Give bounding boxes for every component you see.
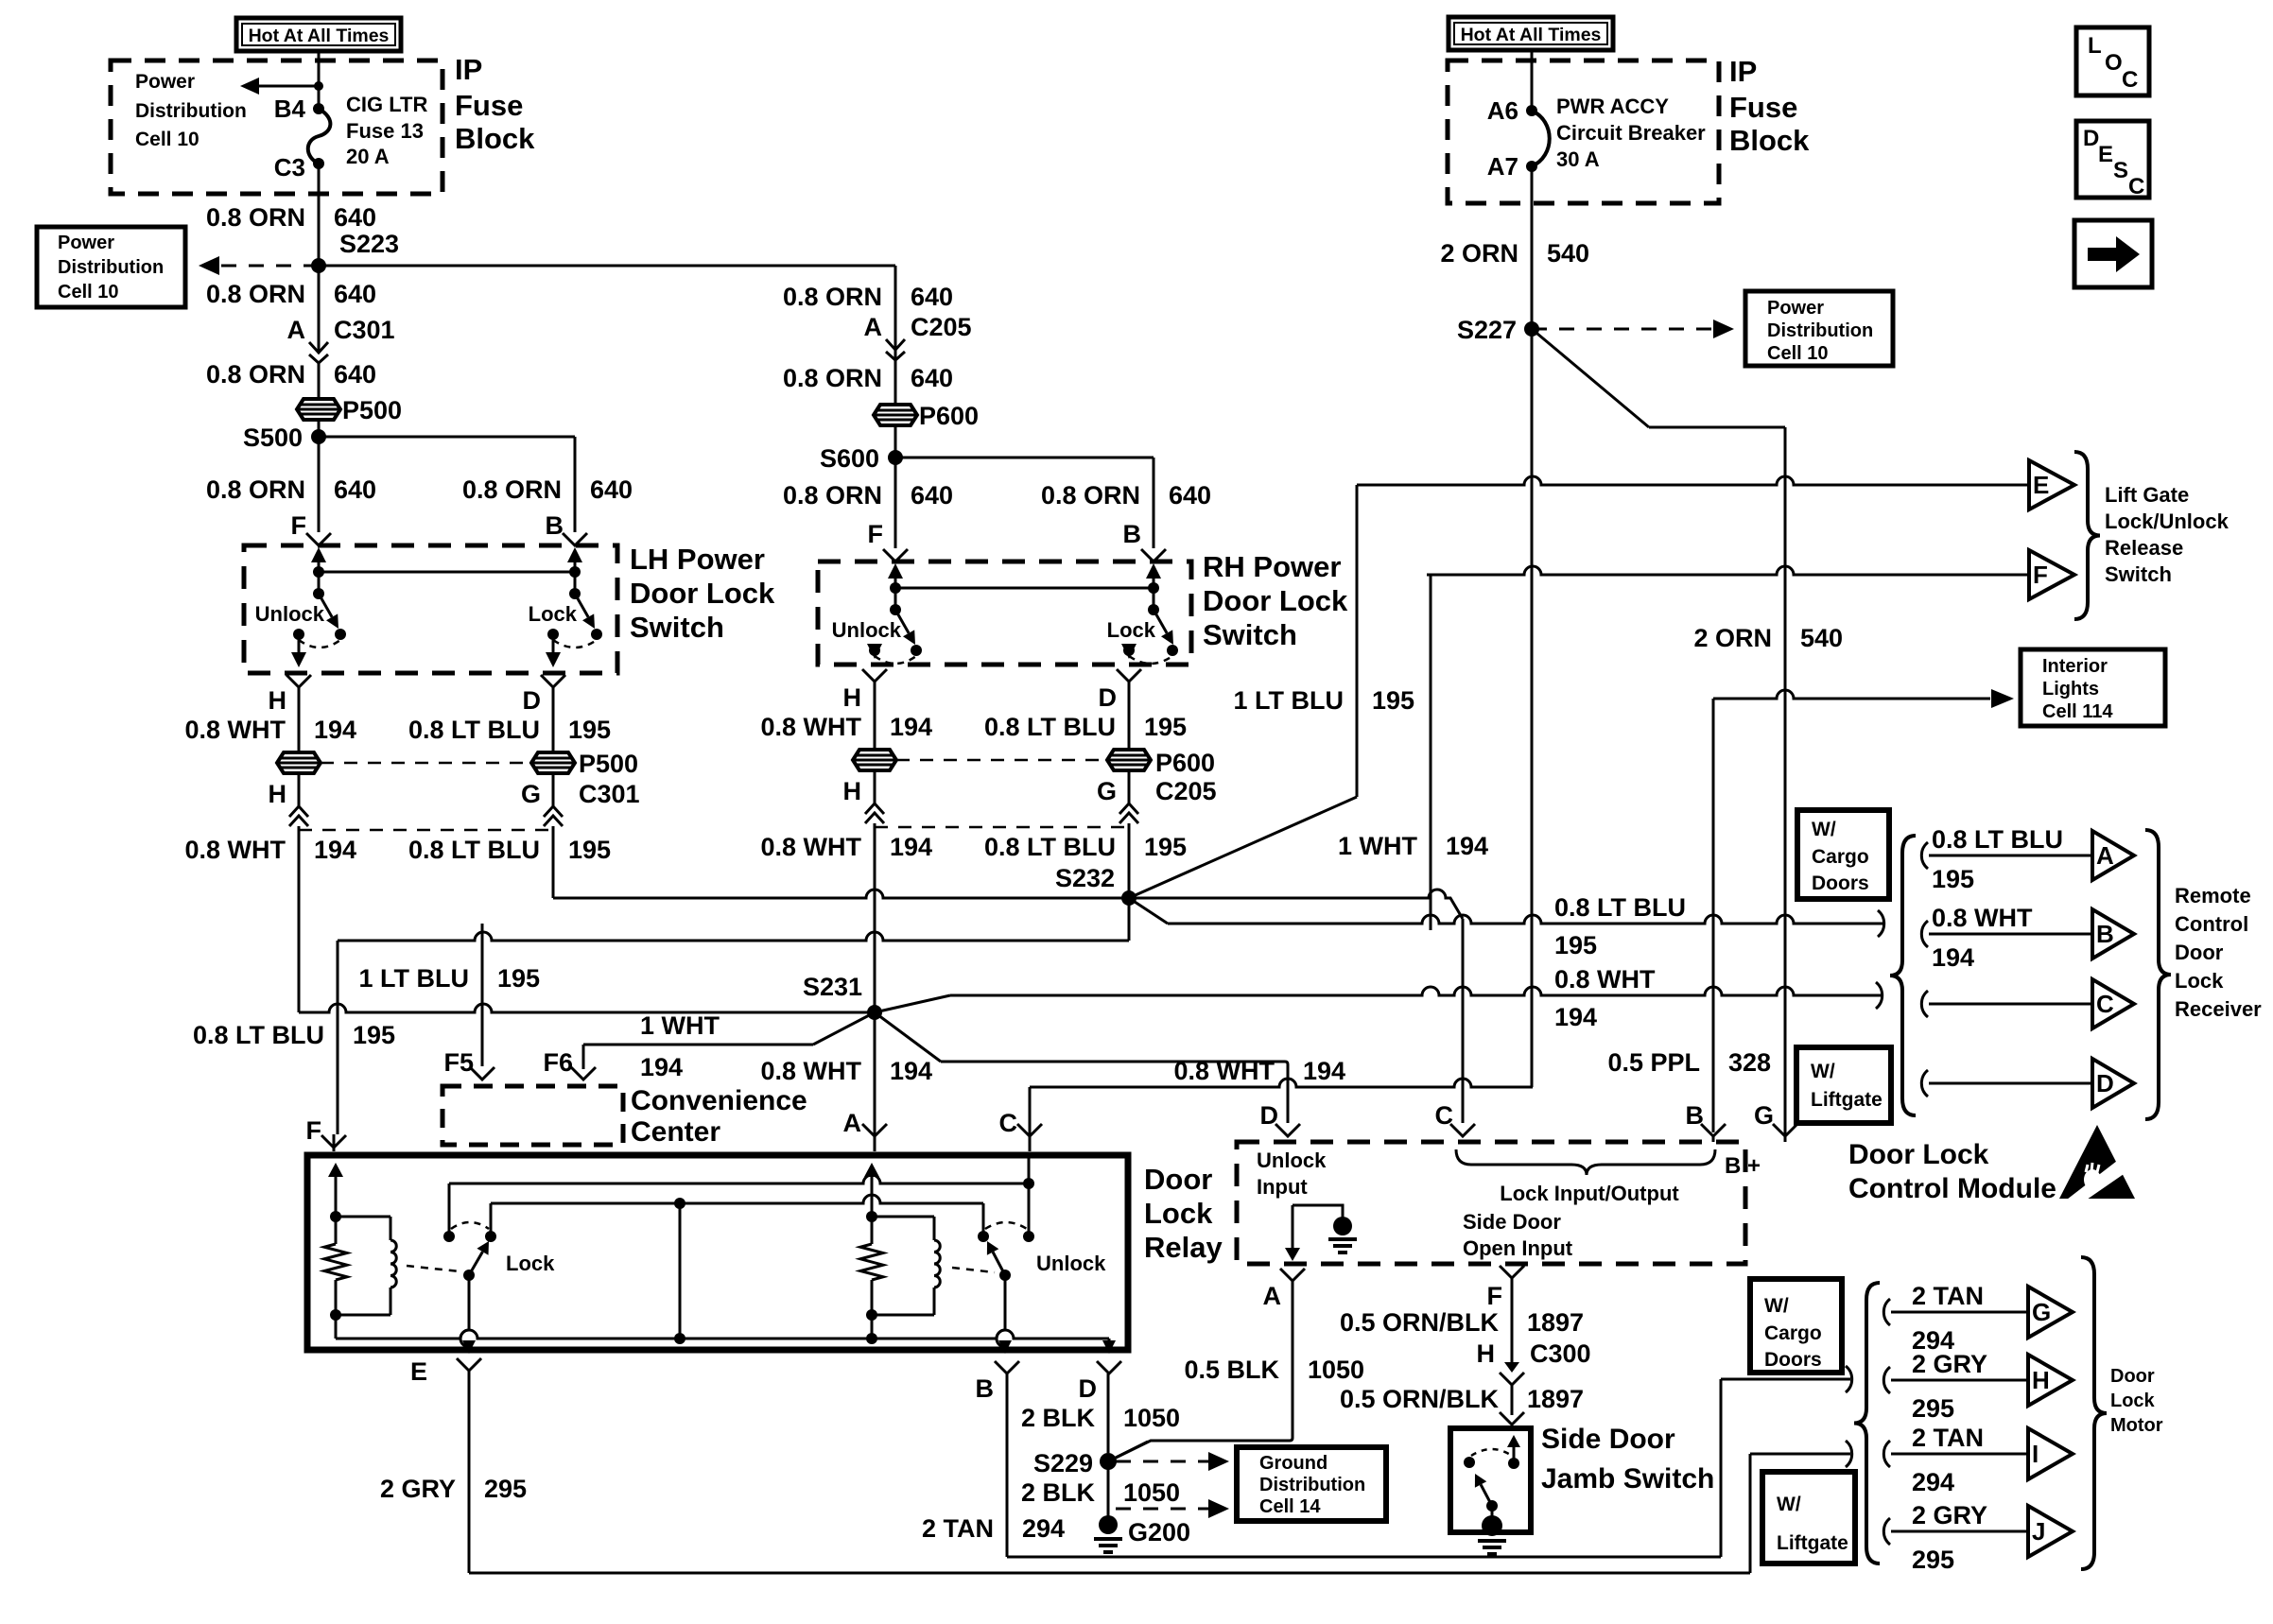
- Power Distribution Cell 10 box (left): [37, 227, 185, 307]
- svg-text:P500: P500: [579, 750, 638, 778]
- svg-text:Cell 14: Cell 14: [1259, 1496, 1321, 1517]
- svg-text:640: 640: [911, 283, 953, 311]
- wire S500 to LH F pin: [318, 437, 321, 532]
- svg-text:S229: S229: [1033, 1449, 1093, 1477]
- W/ Liftgate box (lower): [1762, 1472, 1855, 1564]
- svg-text:194: 194: [640, 1053, 683, 1081]
- svg-text:S500: S500: [243, 423, 303, 452]
- svg-text:PWR ACCY: PWR ACCY: [1556, 95, 1669, 118]
- svg-text:0.8 ORN: 0.8 ORN: [1041, 481, 1140, 510]
- Hot At All Times box (left): [236, 18, 401, 51]
- svg-text:195: 195: [1372, 686, 1414, 715]
- arrow to power distribution: [259, 85, 319, 88]
- pin chevron F module: [1500, 1266, 1524, 1278]
- relay bottom rail: [336, 1330, 1109, 1339]
- lock pivot: [463, 1270, 475, 1281]
- wire to unlock coil top: [872, 1216, 934, 1218]
- switch feed arrow F: [894, 579, 897, 592]
- pin chevron F: [306, 533, 331, 545]
- Hot At All Times box (right): [1449, 17, 1613, 50]
- wire LH H down: [298, 826, 301, 1012]
- svg-text:W/: W/: [1764, 1295, 1789, 1317]
- unlock lever: [895, 610, 909, 633]
- F5 wire 1 LT BLU: [481, 924, 484, 1066]
- svg-text:P600: P600: [919, 402, 979, 430]
- fuse CIG LTR Fuse 13 20A: [308, 109, 331, 164]
- junction unlock resistor bottom: [866, 1309, 877, 1321]
- svg-text:C3: C3: [274, 153, 305, 181]
- svg-text:S227: S227: [1457, 316, 1517, 344]
- pin chevron F RH: [883, 549, 908, 561]
- IP Fuse Block dashed box (left): [111, 60, 442, 194]
- junction unlock resistor top: [866, 1211, 877, 1222]
- wire P500 to C301 H: [298, 773, 301, 806]
- terminal C3: [313, 158, 324, 169]
- Power Distribution Cell 10 box (right): [1745, 291, 1893, 366]
- splice S223: [311, 258, 326, 273]
- connector H motor: [2028, 1355, 2073, 1406]
- svg-text:0.8 LT BLU: 0.8 LT BLU: [1932, 825, 2063, 854]
- jamb contact right: [1508, 1458, 1519, 1469]
- wire 0.8 WHT to receiver B: [1168, 915, 1885, 924]
- svg-text:0.5 ORN/BLK: 0.5 ORN/BLK: [1340, 1308, 1500, 1337]
- wire option mark B: [1921, 921, 1928, 947]
- wire to liftgate release E: [1357, 476, 2029, 485]
- svg-text:D: D: [1260, 1101, 1279, 1130]
- wire lock pivot to E output: [460, 1275, 469, 1348]
- wire P600 to C205 G: [1128, 770, 1131, 803]
- svg-text:Cargo: Cargo: [1812, 846, 1869, 868]
- svg-text:Switch: Switch: [1203, 618, 1297, 651]
- splice S227: [1524, 321, 1539, 337]
- wire 2 TAN to motor G: [1891, 1311, 2028, 1314]
- relay lock resistor: [324, 1244, 347, 1280]
- svg-text:Lights: Lights: [2042, 679, 2099, 700]
- wire 2 GRY to motor J: [1891, 1530, 2028, 1533]
- svg-text:S232: S232: [1055, 864, 1115, 892]
- svg-text:Distribution: Distribution: [135, 100, 247, 122]
- relay rail1: [449, 1175, 1029, 1183]
- pin chevron H: [286, 675, 311, 687]
- svg-text:1050: 1050: [1123, 1404, 1180, 1432]
- wire lock network to relay F: [338, 932, 1129, 941]
- svg-text:D: D: [2096, 1069, 2114, 1097]
- svg-text:294: 294: [1022, 1514, 1065, 1543]
- terminal A6: [1526, 105, 1537, 116]
- unlock lever: [993, 1253, 1005, 1276]
- terminal A7: [1526, 161, 1537, 172]
- svg-text:0.8 ORN: 0.8 ORN: [462, 475, 562, 504]
- wire break H feed: [1846, 1366, 1852, 1392]
- diagonal S231 to receiver C feed: [875, 995, 950, 1012]
- Ground Distribution Cell 14 box: [1237, 1447, 1386, 1521]
- feed H row: [1721, 1378, 1850, 1381]
- svg-text:S: S: [2113, 158, 2128, 183]
- wire P500 to C301 G: [552, 773, 555, 806]
- svg-text:Distribution: Distribution: [58, 257, 164, 278]
- svg-text:1050: 1050: [1308, 1356, 1364, 1384]
- svg-text:2 ORN: 2 ORN: [1440, 239, 1518, 268]
- pin chevron B module: [1701, 1124, 1726, 1136]
- wire S223 to C301: [318, 266, 321, 336]
- svg-text:640: 640: [334, 475, 376, 504]
- Interior Lights Cell 114 box: [2021, 649, 2165, 726]
- svg-text:Unlock: Unlock: [1036, 1252, 1106, 1275]
- svg-text:194: 194: [1446, 832, 1488, 860]
- svg-text:Control Module: Control Module: [1848, 1173, 2056, 1204]
- svg-text:2 GRY: 2 GRY: [380, 1475, 456, 1503]
- svg-text:Hot At All Times: Hot At All Times: [249, 26, 390, 46]
- svg-text:195: 195: [1932, 865, 1974, 893]
- svg-text:Remote: Remote: [2175, 884, 2251, 907]
- ESD warning symbol: [2059, 1125, 2135, 1199]
- svg-text:Unlock: Unlock: [255, 602, 325, 626]
- jamb switch ground: [1478, 1539, 1506, 1543]
- switch rail: [895, 587, 1154, 590]
- wire D to P500: [552, 687, 555, 752]
- wire A7 to S227: [1531, 166, 1534, 329]
- svg-text:2 ORN: 2 ORN: [1693, 624, 1772, 652]
- splice S231: [867, 1005, 882, 1020]
- svg-text:295: 295: [1912, 1546, 1954, 1574]
- svg-text:B +: B +: [1725, 1153, 1761, 1179]
- svg-text:Power: Power: [58, 233, 114, 253]
- svg-text:O: O: [2105, 50, 2123, 76]
- wire 0.8 LT BLU to receiver A: [1929, 855, 2092, 857]
- svg-text:Cell 10: Cell 10: [135, 129, 200, 150]
- Side Door Jamb Switch box: [1450, 1428, 1531, 1532]
- svg-text:Interior: Interior: [2042, 656, 2108, 677]
- lock contact left: [443, 1231, 455, 1242]
- svg-text:F: F: [868, 520, 884, 548]
- splice S500: [311, 429, 326, 444]
- wire rail to unlock pivot: [894, 588, 897, 610]
- svg-text:P600: P600: [1155, 749, 1215, 777]
- svg-text:Cell 10: Cell 10: [1767, 343, 1828, 364]
- wire rail to lock pivot: [574, 572, 577, 594]
- unlock alt contact: [911, 645, 922, 656]
- wire to interior lights: [1712, 699, 1715, 1132]
- lock alt contact: [1167, 645, 1178, 656]
- svg-text:A6: A6: [1487, 96, 1518, 125]
- svg-text:Doors: Doors: [1764, 1349, 1822, 1371]
- svg-text:Cell 114: Cell 114: [2042, 701, 2113, 722]
- svg-text:0.8 WHT: 0.8 WHT: [760, 713, 861, 741]
- svg-text:2 BLK: 2 BLK: [1021, 1478, 1096, 1507]
- svg-text:Convenience: Convenience: [631, 1085, 807, 1116]
- RH Power Door Lock Switch dashed box: [818, 561, 1191, 665]
- svg-text:C: C: [2122, 67, 2138, 93]
- svg-text:Switch: Switch: [630, 611, 724, 644]
- pin chevron C module: [1450, 1124, 1475, 1136]
- wire break right: [1878, 910, 1884, 937]
- svg-text:RH Power: RH Power: [1203, 550, 1341, 583]
- svg-text:195: 195: [497, 964, 540, 993]
- svg-text:195: 195: [568, 716, 611, 744]
- brace motor group: [1854, 1283, 1880, 1564]
- svg-text:0.5 PPL: 0.5 PPL: [1607, 1048, 1700, 1077]
- wire break right C: [1876, 982, 1883, 1009]
- svg-text:Liftgate: Liftgate: [1777, 1532, 1848, 1554]
- svg-text:1 WHT: 1 WHT: [1338, 832, 1418, 860]
- wire 2 GRY to motor H: [1891, 1379, 2028, 1382]
- wire LH D output down: [552, 826, 555, 898]
- pass-through connector P500 (H): [277, 752, 321, 773]
- wire rail to lock pivot: [1153, 588, 1155, 610]
- jamb switch fixed contact arrow: [1513, 1447, 1516, 1463]
- wire 0.8 WHT to receiver B: [1929, 933, 2092, 936]
- svg-text:0.8 ORN: 0.8 ORN: [206, 280, 305, 308]
- svg-text:P500: P500: [342, 396, 402, 424]
- wire lock contact to rail1: [448, 1183, 451, 1236]
- wire P600 to S600: [894, 425, 897, 458]
- svg-text:Door Lock: Door Lock: [1848, 1139, 1989, 1170]
- pin chevron F6: [571, 1067, 596, 1080]
- connector F liftgate release: [2029, 550, 2074, 599]
- svg-text:Lock Input/Output: Lock Input/Output: [1500, 1182, 1679, 1205]
- connector C receiver: [2092, 979, 2134, 1028]
- relay lock coil: [390, 1240, 396, 1287]
- pin chevron A module: [1280, 1269, 1305, 1281]
- W/ Cargo Doors box (lower): [1750, 1279, 1842, 1373]
- unlock pivot: [890, 604, 901, 615]
- svg-text:294: 294: [1912, 1468, 1954, 1496]
- svg-text:Cell 10: Cell 10: [58, 282, 118, 302]
- jamb pivot: [1486, 1500, 1498, 1512]
- svg-text:A: A: [843, 1109, 862, 1137]
- svg-text:0.5 BLK: 0.5 BLK: [1184, 1356, 1279, 1384]
- svg-text:2 GRY: 2 GRY: [1912, 1350, 1987, 1378]
- brace right receiver: [2145, 830, 2171, 1119]
- svg-text:Unlock: Unlock: [1257, 1149, 1327, 1172]
- jamb lever: [1481, 1485, 1492, 1507]
- svg-text:C301: C301: [334, 316, 395, 344]
- svg-text:Receiver: Receiver: [2175, 997, 2262, 1021]
- unlock alt contact: [335, 629, 346, 640]
- svg-text:IP: IP: [1729, 55, 1757, 88]
- svg-text:C: C: [999, 1109, 1018, 1137]
- ground G200 dot: [1099, 1515, 1118, 1534]
- svg-text:G: G: [1097, 777, 1117, 805]
- svg-text:0.8 WHT: 0.8 WHT: [1173, 1057, 1275, 1085]
- svg-text:D: D: [1099, 683, 1118, 712]
- W/ Liftgate box (upper): [1796, 1047, 1891, 1123]
- svg-text:640: 640: [911, 364, 953, 392]
- svg-text:C205: C205: [1155, 777, 1217, 805]
- svg-text:194: 194: [1932, 943, 1974, 972]
- module ground dot: [1333, 1217, 1352, 1235]
- wire P500 to S500: [318, 420, 321, 437]
- svg-text:640: 640: [590, 475, 633, 504]
- jamb contact left: [1464, 1457, 1475, 1468]
- svg-text:A: A: [1263, 1282, 1282, 1310]
- svg-text:1 LT BLU: 1 LT BLU: [359, 964, 470, 993]
- splice S229: [1100, 1453, 1117, 1470]
- svg-text:195: 195: [568, 836, 611, 864]
- svg-text:Doors: Doors: [1812, 872, 1869, 894]
- brace Lock Input/Output: [1456, 1149, 1715, 1175]
- switch rail: [319, 571, 575, 574]
- svg-text:640: 640: [334, 360, 376, 389]
- svg-text:0.8 WHT: 0.8 WHT: [184, 716, 286, 744]
- brace receiver group: [1890, 836, 1916, 1115]
- svg-text:540: 540: [1800, 624, 1843, 652]
- switch feed arrow F: [318, 562, 321, 576]
- wire S232 to module C: [1129, 890, 1463, 919]
- svg-text:CIG LTR: CIG LTR: [346, 93, 427, 116]
- svg-text:20 A: 20 A: [346, 145, 390, 168]
- lock lever: [575, 594, 588, 617]
- diagonal from S227: [1532, 329, 1649, 427]
- svg-text:F: F: [1487, 1282, 1503, 1310]
- svg-text:IP: IP: [455, 53, 482, 86]
- svg-text:195: 195: [353, 1021, 395, 1049]
- svg-text:1897: 1897: [1527, 1308, 1584, 1337]
- connector C301 (H): [289, 806, 308, 817]
- svg-text:W/: W/: [1812, 819, 1836, 840]
- svg-text:Side Door: Side Door: [1541, 1424, 1675, 1455]
- svg-text:Door Lock: Door Lock: [630, 577, 775, 610]
- pin chevron C relay: [1017, 1124, 1042, 1136]
- svg-text:Power: Power: [135, 71, 195, 93]
- svg-text:0.8 ORN: 0.8 ORN: [206, 475, 305, 504]
- wire S500 branch to B: [319, 436, 575, 439]
- junction rail1 C: [1023, 1178, 1034, 1189]
- svg-text:0.8 WHT: 0.8 WHT: [184, 836, 286, 864]
- svg-text:Lock: Lock: [1107, 618, 1156, 642]
- pin chevron H RH: [862, 669, 887, 682]
- switch feed arrow B: [1153, 579, 1155, 592]
- svg-text:640: 640: [334, 280, 376, 308]
- relay F entry arrow: [335, 1177, 338, 1183]
- lock contact right: [485, 1231, 496, 1242]
- svg-text:640: 640: [1169, 481, 1211, 510]
- unlock contact: [293, 629, 304, 640]
- svg-text:C205: C205: [911, 313, 972, 341]
- pin chevron D relay: [1097, 1361, 1121, 1373]
- LOC box: [2076, 27, 2149, 95]
- module unlock output arrow: [1292, 1205, 1294, 1248]
- svg-text:G: G: [1754, 1101, 1774, 1130]
- wire center tie: [679, 1203, 682, 1339]
- connector G motor: [2028, 1287, 2073, 1338]
- connector C205 (G): [1119, 803, 1138, 814]
- svg-text:0.8 LT BLU: 0.8 LT BLU: [984, 713, 1116, 741]
- diagonal S232 to liftgate lock wire: [1129, 797, 1357, 898]
- svg-text:H: H: [2032, 1366, 2050, 1394]
- svg-text:E: E: [2098, 142, 2113, 167]
- connector I motor: [2028, 1428, 2073, 1479]
- pin chevron F5: [470, 1067, 495, 1080]
- svg-text:D: D: [523, 686, 542, 715]
- svg-text:Input: Input: [1257, 1175, 1308, 1199]
- svg-text:1 WHT: 1 WHT: [640, 1011, 720, 1040]
- svg-text:E: E: [410, 1357, 427, 1386]
- diagonal S232 to unlock feed: [1129, 898, 1168, 924]
- pass-through connector P600 (G): [1107, 750, 1151, 770]
- brace liftgate switch: [2074, 452, 2100, 619]
- W/ Cargo Doors box (upper): [1797, 810, 1889, 899]
- S232 stub down: [1128, 898, 1131, 941]
- pin chevron G module: [1773, 1124, 1797, 1136]
- connector E liftgate release: [2029, 460, 2074, 510]
- svg-text:0.8 ORN: 0.8 ORN: [206, 203, 305, 232]
- wire option mark H: [1883, 1367, 1890, 1393]
- wire to receiver D: [1929, 1082, 2092, 1085]
- svg-text:194: 194: [1303, 1057, 1345, 1085]
- unlock contact right: [1023, 1231, 1034, 1242]
- svg-text:0.8 LT BLU: 0.8 LT BLU: [1554, 893, 1686, 922]
- svg-text:Circuit Breaker: Circuit Breaker: [1556, 121, 1706, 145]
- connector C300 chevron: [1500, 1373, 1524, 1385]
- svg-text:F5: F5: [443, 1048, 474, 1077]
- svg-text:Relay: Relay: [1144, 1231, 1223, 1264]
- lock output arrow: [552, 634, 555, 652]
- relay A entry arrow: [871, 1177, 874, 1183]
- svg-text:G: G: [521, 780, 541, 808]
- svg-text:B: B: [1686, 1101, 1705, 1130]
- lock contact: [547, 629, 559, 640]
- wire S600 to RH F pin: [894, 458, 897, 548]
- svg-text:0.8 WHT: 0.8 WHT: [1932, 904, 2033, 932]
- svg-text:F: F: [2033, 561, 2048, 589]
- svg-text:F6: F6: [543, 1048, 573, 1077]
- dashed arrow S227 to Power Distribution: [1532, 328, 1713, 331]
- svg-text:Lock: Lock: [1144, 1197, 1213, 1230]
- wire C3 to S223: [318, 164, 321, 266]
- svg-text:194: 194: [890, 713, 932, 741]
- wire 2 TAN relay B to motor H feed: [1006, 1373, 1009, 1557]
- svg-text:Distribution: Distribution: [1259, 1475, 1365, 1495]
- LH Power Door Lock Switch dashed box: [244, 545, 617, 673]
- svg-text:540: 540: [1547, 239, 1589, 268]
- wire power from S227 to relay C: [1030, 1079, 1533, 1087]
- svg-text:S223: S223: [339, 230, 399, 258]
- circuit breaker PWR ACCY 30A: [1532, 111, 1550, 166]
- wire 0.8 WHT to module D: [941, 1061, 1285, 1063]
- svg-text:0.8 ORN: 0.8 ORN: [783, 481, 882, 510]
- svg-text:Lock: Lock: [2175, 969, 2224, 993]
- wire S229 to G200: [1107, 1461, 1110, 1519]
- lock lever: [469, 1252, 482, 1275]
- wire 2 BLK relay D to S229: [1107, 1373, 1110, 1453]
- svg-text:Lock/Unlock: Lock/Unlock: [2105, 510, 2230, 533]
- svg-text:Lock: Lock: [529, 602, 578, 626]
- pin chevron E relay: [457, 1358, 481, 1371]
- svg-text:Control: Control: [2175, 912, 2248, 936]
- svg-text:H: H: [843, 683, 862, 712]
- svg-text:1897: 1897: [1527, 1385, 1584, 1413]
- dashed arrow G200 to ground distribution: [1116, 1508, 1208, 1511]
- lock pivot: [1148, 604, 1159, 615]
- connector C301: [318, 336, 321, 351]
- svg-text:B: B: [1123, 520, 1142, 548]
- pin chevron B relay: [995, 1361, 1019, 1373]
- wire S600 branch to B: [895, 457, 1154, 459]
- svg-text:D: D: [1079, 1374, 1098, 1403]
- wire relay C to unlock alt contact: [1028, 1155, 1031, 1236]
- diagonal F6 wire to S231: [813, 1012, 875, 1045]
- wire LH unlock to S231: [299, 1004, 875, 1012]
- svg-text:0.5 ORN/BLK: 0.5 ORN/BLK: [1340, 1385, 1500, 1413]
- lock alt contact: [591, 629, 602, 640]
- svg-text:194: 194: [890, 1057, 932, 1085]
- svg-text:W/: W/: [1811, 1061, 1835, 1082]
- svg-text:Block: Block: [1729, 124, 1810, 157]
- svg-text:B: B: [2096, 920, 2114, 948]
- svg-text:0.8 WHT: 0.8 WHT: [760, 833, 861, 861]
- wire branch to RH B pin: [1153, 458, 1155, 548]
